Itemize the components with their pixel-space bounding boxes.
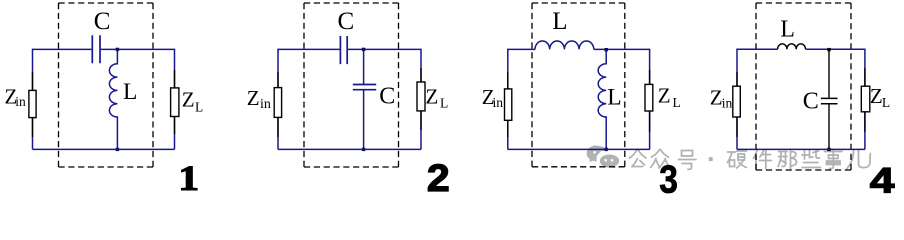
wire: right vertical (load branch) bbox=[649, 49, 651, 150]
inductor L (shunt) bbox=[109, 49, 117, 149]
resistor ZL box 4 bbox=[861, 86, 870, 112]
svg-text:1: 1 bbox=[178, 159, 199, 194]
svg-text:L: L bbox=[123, 79, 137, 105]
wire: left vertical (source branch) bbox=[277, 49, 279, 150]
svg-text:Z: Z bbox=[182, 88, 195, 112]
wire: right vertical (load branch) bbox=[420, 49, 422, 150]
svg-text:C: C bbox=[94, 8, 111, 35]
svg-text:Z: Z bbox=[426, 84, 439, 108]
事 bbox=[825, 150, 843, 169]
wire: top left to series L bbox=[737, 48, 778, 50]
wire: bottom rail bbox=[737, 148, 865, 150]
wire: bottom rail bbox=[33, 148, 175, 150]
wire: left vertical (source branch) bbox=[32, 49, 34, 150]
svg-text:L: L bbox=[607, 84, 621, 110]
wire: right vertical (load branch) bbox=[174, 49, 176, 150]
wire: top left to series L bbox=[508, 48, 535, 50]
wire: left vertical (source branch) bbox=[507, 49, 509, 150]
dashed matching-network box 2 bbox=[304, 3, 399, 167]
inductor L (series) bbox=[535, 41, 594, 49]
些 bbox=[802, 150, 821, 168]
dashed matching-network box 4 bbox=[756, 3, 851, 170]
那 bbox=[778, 151, 797, 169]
svg-text:3: 3 bbox=[659, 157, 678, 194]
wire: series L to right corner bbox=[594, 48, 650, 50]
svg-text:Z: Z bbox=[247, 86, 260, 110]
resistor Zin box 4 bbox=[733, 86, 741, 117]
resistor Zin box 3 bbox=[505, 89, 512, 120]
capacitor C (shunt): bottom lead bbox=[363, 90, 365, 150]
svg-text:in: in bbox=[493, 95, 504, 110]
dashed matching-network box 3 bbox=[532, 3, 625, 167]
capacitor C (shunt, black): top lead bbox=[828, 49, 830, 98]
capacitor C (shunt): bottom lead bbox=[828, 104, 830, 150]
svg-text:2: 2 bbox=[427, 157, 450, 194]
capacitor C (series) plates bbox=[92, 35, 100, 63]
resistor ZL box 2 bbox=[417, 82, 425, 111]
capacitor C (shunt) plates bbox=[821, 98, 838, 103]
capacitor C (shunt): top lead bbox=[363, 49, 365, 84]
svg-text:L: L bbox=[780, 17, 795, 43]
wire: bottom rail bbox=[508, 148, 650, 150]
svg-text:C: C bbox=[803, 89, 819, 115]
wire: right vertical (load branch) bbox=[864, 49, 866, 150]
svg-text:in: in bbox=[15, 94, 26, 109]
inductor L (series, black) bbox=[778, 44, 806, 49]
node A (top of shunt L) bbox=[116, 48, 119, 51]
node A4 (top of shunt C) bbox=[827, 48, 830, 51]
resistor Zin box 1 bbox=[29, 90, 36, 117]
svg-text:Z: Z bbox=[710, 86, 723, 110]
wire: capacitor C to right corner bbox=[101, 48, 175, 50]
号 bbox=[679, 151, 697, 170]
svg-text:L: L bbox=[882, 95, 890, 110]
dashed matching-network box 1 bbox=[59, 3, 154, 167]
wire: bottom rail bbox=[278, 148, 421, 150]
node B4 (bottom of shunt C) bbox=[827, 148, 830, 151]
儿 bbox=[847, 151, 870, 169]
svg-text:C: C bbox=[379, 84, 395, 110]
resistor ZL box 3 bbox=[645, 84, 653, 111]
svg-text:L: L bbox=[552, 8, 567, 35]
inductor L (shunt) bbox=[598, 50, 606, 150]
resistor Zin box 2 bbox=[274, 88, 281, 118]
众 bbox=[651, 150, 671, 169]
svg-text:in: in bbox=[722, 95, 733, 110]
svg-text:4: 4 bbox=[870, 162, 896, 194]
wire: top left segment to capacitor C bbox=[278, 48, 340, 50]
node B3 (bottom of shunt L) bbox=[605, 148, 608, 151]
node A3 (top of shunt L) bbox=[605, 48, 608, 51]
svg-text:C: C bbox=[338, 8, 355, 35]
svg-text:L: L bbox=[673, 95, 681, 110]
wechat watermark icon bbox=[587, 145, 620, 169]
svg-text:Z: Z bbox=[870, 84, 883, 108]
· bbox=[709, 157, 713, 161]
capacitor C (series) plates bbox=[340, 36, 347, 64]
svg-text:in: in bbox=[260, 97, 271, 112]
硬 bbox=[728, 151, 747, 168]
node B (bottom of shunt L) bbox=[116, 148, 119, 151]
svg-text:L: L bbox=[440, 96, 448, 111]
svg-text:Z: Z bbox=[658, 84, 671, 108]
resistor ZL box 1 bbox=[171, 88, 179, 117]
wire: top left segment to capacitor C bbox=[33, 48, 92, 50]
件 bbox=[754, 150, 772, 169]
公 bbox=[630, 150, 647, 167]
wire: left vertical (source branch) bbox=[736, 49, 738, 150]
wire: capacitor C to right corner bbox=[348, 48, 421, 50]
node B2 (bottom of shunt C) bbox=[362, 148, 365, 151]
svg-text:L: L bbox=[195, 100, 203, 115]
node A2 (top of shunt C) bbox=[362, 48, 365, 51]
watermark text 公众号·硬件那些事儿 bbox=[630, 150, 871, 170]
capacitor C (shunt) plates bbox=[353, 85, 376, 90]
wire: series L to right corner bbox=[806, 48, 865, 50]
